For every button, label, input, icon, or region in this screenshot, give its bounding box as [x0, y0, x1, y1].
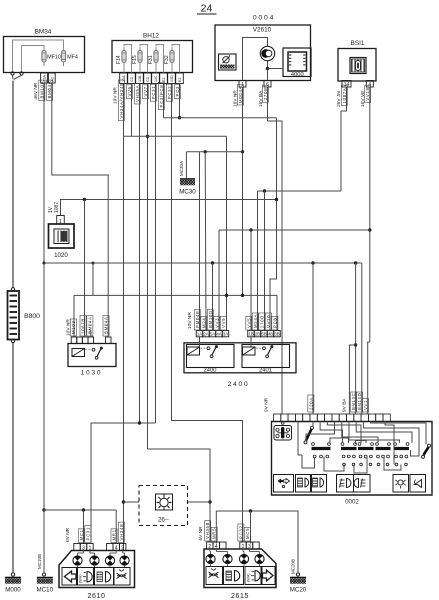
wire label VV9 — [220, 316, 226, 330]
wire label 1087B — [80, 316, 86, 336]
pin 2400 1A — [196, 331, 203, 337]
wire H230 — [219, 229, 370, 231]
wire BM10A column — [43, 83, 46, 510]
wire BH12 loop F14 — [124, 45, 132, 73]
bulb 2610 x77.5 — [73, 551, 84, 568]
fuse MF10 — [42, 47, 61, 67]
wire MR5 drop — [215, 511, 217, 544]
wire label M103 — [70, 319, 76, 336]
icon 2615 low beam — [245, 567, 261, 585]
pin 2400 2A — [203, 331, 210, 337]
svg-text:13C: 13C — [154, 75, 158, 82]
wire label VH35A — [134, 84, 140, 104]
wire 1B drop — [250, 230, 252, 331]
svg-text:B800: B800 — [24, 313, 40, 320]
unit BSI1 — [338, 40, 376, 81]
pin 0004 6 — [264, 81, 271, 88]
svg-text:MC1: MC1 — [79, 529, 84, 540]
svg-text:G3: G3 — [130, 77, 134, 82]
svg-text:V2610: V2610 — [253, 27, 272, 34]
wire BM10D drop — [361, 263, 363, 414]
headlamp 2610 — [59, 551, 135, 600]
pin BH12 13A — [120, 73, 128, 84]
junction 1B — [249, 228, 252, 231]
svg-text:(WA): (WA) — [247, 573, 251, 582]
pin BM34 out MF10 — [41, 73, 48, 83]
svg-text:PC8: PC8 — [272, 318, 277, 328]
svg-text:BM10D: BM10D — [357, 393, 362, 410]
wire label PC32 2615 — [238, 524, 244, 541]
wire VH34B to pin2 — [123, 503, 125, 544]
bulb 2615 x210.5 — [206, 549, 215, 567]
label 26V JN — [336, 91, 342, 107]
wire BM34 internal feed to MF4 — [13, 40, 64, 73]
svg-text:VV1: VV1 — [363, 400, 368, 410]
label 6V NR 2610 — [65, 527, 71, 542]
label MC10B — [37, 554, 42, 569]
wire label PC31 2610 — [85, 525, 91, 542]
junction M004A branch — [241, 150, 244, 153]
wire label M24 — [201, 316, 207, 330]
unit 0004 V2610 — [215, 15, 311, 81]
wire label VV5 — [246, 316, 252, 330]
pin BSI1 14 — [342, 81, 351, 88]
icon 0002 panel light — [393, 475, 409, 493]
ground MC30 — [179, 179, 196, 196]
svg-text:2: 2 — [121, 545, 124, 551]
wire label 270B — [262, 85, 268, 102]
wire label BM04A — [47, 80, 53, 100]
wire VH34B column c1 — [123, 84, 125, 550]
junction 2A — [204, 150, 207, 153]
wire label M004A — [237, 85, 243, 105]
svg-text:270D: 270D — [259, 315, 264, 328]
wire BM10C drop — [355, 263, 357, 414]
svg-text:10V NR: 10V NR — [187, 312, 193, 329]
relay 1030 — [68, 344, 116, 377]
wire M004A column — [242, 87, 244, 296]
svg-text:MC10: MC10 — [37, 587, 54, 594]
terminal BM34 left — [11, 72, 14, 75]
svg-text:2: 2 — [208, 544, 211, 550]
junction 0004 — [266, 67, 283, 70]
pin 2400 4B — [267, 331, 274, 337]
svg-text:4000: 4000 — [291, 72, 304, 78]
pin 2610 blank2 — [107, 544, 113, 551]
svg-text:2A: 2A — [203, 332, 208, 337]
pin 2615 1 — [240, 542, 246, 550]
wire label BM10A — [39, 80, 45, 100]
junction VH35B node — [208, 500, 211, 503]
junction MC5 — [249, 509, 252, 512]
svg-text:1087B: 1087B — [81, 318, 86, 334]
icon 0002 front fog — [337, 475, 354, 493]
svg-text:M24A: M24A — [253, 314, 258, 328]
svg-text:5B: 5B — [261, 332, 266, 337]
junction VV6 end — [138, 421, 141, 424]
label 19V NR — [113, 87, 119, 104]
svg-text:2615: 2615 — [231, 593, 249, 600]
label 16V BA — [258, 90, 264, 107]
svg-text:VV9: VV9 — [221, 318, 226, 328]
wire label VV10 — [265, 313, 271, 330]
junction c4 on H136 — [146, 135, 149, 138]
bulb 2615 x244 — [239, 549, 248, 567]
wire 1087A hook — [341, 87, 347, 191]
wire label VV6 — [126, 85, 132, 99]
icon 0002 rear fog — [354, 475, 371, 493]
junction 26 left — [122, 500, 125, 503]
pin 2610 3 — [80, 544, 86, 552]
svg-text:46V NR: 46V NR — [33, 82, 39, 99]
svg-text:MR5: MR5 — [212, 528, 217, 539]
pin 1030 x108.2 — [105, 337, 111, 344]
junction BM10C — [354, 261, 357, 264]
svg-text:BM10D: BM10D — [208, 310, 213, 328]
pin 2615 4 — [213, 542, 219, 550]
icon 0002 turn signals — [274, 475, 294, 493]
wire label PM04E — [194, 310, 200, 330]
wire BH12 loop F32 — [172, 45, 180, 73]
wire 26 left lead — [124, 501, 140, 503]
svg-text:M24: M24 — [201, 318, 206, 328]
svg-text:3B: 3B — [274, 332, 279, 337]
wire MC10 stem — [42, 510, 45, 576]
wire label VV1 — [363, 399, 369, 412]
relay 2401 right box — [242, 337, 290, 368]
svg-text:PC32: PC32 — [238, 525, 243, 539]
wire 2A drop — [204, 152, 207, 331]
svg-text:F14: F14 — [116, 55, 122, 64]
pin 2400 5A — [209, 331, 216, 337]
icon 2615 position — [206, 567, 223, 585]
pin 1030 x74 — [71, 337, 77, 344]
unit 0002 column switch — [272, 422, 433, 506]
svg-text:F32: F32 — [164, 55, 170, 64]
svg-text:2B: 2B — [255, 332, 260, 337]
wire 5B drop — [264, 191, 266, 331]
svg-text:2400: 2400 — [228, 381, 250, 388]
svg-text:1030: 1030 — [81, 370, 102, 377]
ground MC20 — [290, 578, 307, 594]
svg-text:2401: 2401 — [259, 367, 272, 373]
pin 2615 3 — [246, 542, 252, 550]
svg-text:BSI1: BSI1 — [351, 40, 365, 47]
label 16V NR — [233, 90, 239, 107]
relay 2400 left box — [187, 337, 235, 368]
lever 0002 left — [304, 426, 314, 444]
svg-text:0004: 0004 — [253, 15, 275, 22]
svg-text:19V NR: 19V NR — [113, 87, 119, 104]
wire label BM10D 0002 — [357, 392, 363, 412]
svg-text:F31: F31 — [148, 55, 154, 64]
icon 2615 turn — [262, 567, 275, 585]
fuse F15 — [132, 47, 142, 67]
icon 2610 low beam — [78, 568, 94, 586]
icon 2610 position — [114, 568, 131, 586]
wire H449 — [148, 449, 211, 543]
wire H152 to MC30 — [186, 151, 242, 153]
wire MC5 drop — [250, 511, 252, 544]
pin BH12 E3 — [176, 73, 184, 84]
page title 24 — [197, 3, 217, 15]
svg-text:MC5: MC5 — [245, 528, 250, 539]
relay block 2400 — [184, 343, 296, 388]
svg-text:M103: M103 — [71, 320, 76, 334]
pin 2400 2B — [254, 331, 261, 337]
svg-text:VV5: VV5 — [246, 318, 251, 328]
svg-text:BM04A: BM04A — [104, 316, 109, 334]
svg-text:MF4: MF4 — [67, 55, 78, 61]
wire 3B drop — [276, 295, 278, 330]
fuse F32 — [164, 47, 174, 67]
wire column c2 — [131, 84, 133, 136]
fusebox BM34 — [4, 29, 85, 73]
svg-text:1B: 1B — [248, 332, 253, 337]
wire 1087B column — [84, 200, 86, 337]
contacts 0002 — [312, 443, 410, 466]
pin BH12 G3 — [128, 73, 136, 84]
wire label VH34A/VH34B — [118, 80, 124, 120]
bulb 2610 x110 — [105, 551, 116, 568]
wire 5A drop — [212, 263, 214, 331]
wire 46V NR rail — [12, 81, 14, 574]
svg-text:VH34B: VH34B — [119, 523, 124, 540]
pins 0002 row — [274, 414, 391, 422]
wire H263 BM10 rail — [44, 262, 362, 264]
icon 2615 high beam — [224, 567, 244, 585]
fuse F31 — [148, 47, 158, 67]
svg-text:4B: 4B — [268, 332, 273, 337]
svg-text:E3: E3 — [162, 78, 166, 82]
svg-text:F15: F15 — [132, 55, 138, 64]
svg-text:1087: 1087 — [54, 202, 60, 213]
junction 220A — [311, 261, 314, 264]
wire label BM10D — [207, 310, 213, 330]
svg-text:6V NR: 6V NR — [65, 527, 71, 542]
pin 2400 3A — [222, 331, 229, 337]
pin BH12 13B — [136, 73, 144, 84]
icon 0002 connector — [274, 422, 292, 440]
junction c8 on H120 — [178, 116, 181, 119]
pin BSI1 4 — [366, 81, 373, 88]
svg-text:MC10B: MC10B — [37, 554, 42, 569]
fuse MF4 — [61, 47, 77, 67]
svg-text:3: 3 — [248, 544, 251, 550]
wire MC1 drop — [83, 510, 85, 544]
splice B800 — [8, 288, 41, 343]
pin 1030 x85.2 — [82, 337, 88, 344]
pin 2400 3B — [274, 331, 281, 337]
wire PC31 column c5 — [155, 84, 157, 423]
svg-text:VH35B: VH35B — [205, 522, 210, 539]
lamp symbol in 0004 — [260, 46, 274, 60]
bulb 2610 x94.5 — [90, 551, 99, 568]
fuse F14 — [116, 47, 126, 67]
wire VV6 column c3 — [139, 84, 141, 423]
unit 1020 — [49, 216, 75, 260]
pin 1030 x79.5 — [77, 337, 83, 344]
pin 2610 1 — [87, 544, 93, 552]
icon 0004 leveling motor — [219, 54, 237, 70]
svg-text:9V BA: 9V BA — [342, 398, 348, 412]
terminal BM34 right — [20, 72, 23, 75]
svg-text:9V NR: 9V NR — [264, 397, 270, 412]
icon 2610 turn — [62, 568, 77, 586]
wire label VV3 — [214, 316, 220, 330]
pin 2615 blank2 — [253, 542, 259, 549]
pin 2400 1B — [248, 331, 255, 337]
wire label BM04A 1030b — [103, 316, 109, 336]
label 10V NR 2400 — [187, 312, 193, 329]
pin 2615 2 — [207, 542, 213, 550]
wire label MC5 — [244, 527, 250, 541]
svg-text:1020: 1020 — [54, 252, 68, 259]
junction VV18 — [368, 228, 371, 231]
headlamp 2615 — [204, 549, 276, 600]
svg-text:BH12: BH12 — [143, 33, 159, 40]
junction 9VBA — [354, 343, 357, 346]
junction 5A — [211, 261, 214, 264]
wire BM04A column — [52, 83, 108, 337]
wire 9V BA drop — [349, 345, 355, 414]
wire label 270D — [259, 313, 265, 330]
svg-text:BM04A: BM04A — [87, 316, 92, 334]
wire label M24A — [252, 313, 258, 330]
svg-text:MC20B: MC20B — [291, 559, 296, 574]
junction 1087B — [83, 198, 86, 201]
bulb 2615 x227.5 — [216, 549, 232, 567]
wire VV18 column — [369, 87, 371, 342]
wire label MR5 — [211, 527, 217, 541]
svg-text:1: 1 — [242, 544, 245, 550]
icon 0002 low beam — [311, 475, 327, 493]
svg-text:2610: 2610 — [88, 593, 106, 600]
svg-text:MC20: MC20 — [290, 587, 307, 594]
pin 2610 blank1 — [74, 544, 80, 551]
wire 270B branch — [268, 121, 283, 414]
wire H118 PC3 link — [164, 117, 277, 119]
svg-text:13A: 13A — [122, 75, 126, 82]
pin 2400 5B — [261, 331, 268, 337]
wire label PC3 — [174, 85, 180, 99]
wire label MR1 — [111, 529, 117, 543]
label MC20B — [291, 559, 296, 574]
pin 2610 4 — [113, 544, 119, 552]
pin BH12 G3 — [144, 73, 152, 84]
ground MC10 — [37, 578, 54, 594]
svg-text:4: 4 — [115, 545, 118, 551]
pin 2400 4A — [216, 331, 223, 337]
svg-text:BM34: BM34 — [35, 29, 52, 36]
svg-text:4A: 4A — [216, 332, 221, 337]
wire label PC3/PC8 — [158, 82, 164, 109]
wire H136 link — [124, 135, 227, 137]
svg-text:E3: E3 — [178, 78, 182, 82]
pin BM34 out MF4 — [48, 73, 55, 83]
pin BH12 13C — [152, 73, 160, 84]
wire PC3 column c8 — [179, 84, 181, 118]
svg-text:26--: 26-- — [158, 517, 169, 524]
wire merge to 46V NR — [13, 75, 22, 79]
icon 0002 position lamps — [296, 475, 312, 493]
wire M103 riser — [92, 262, 95, 296]
label 6V NR 2615 — [198, 526, 204, 541]
wire 1V 1087 — [61, 200, 277, 216]
junction 5B — [263, 189, 266, 192]
svg-text:24: 24 — [201, 3, 213, 15]
svg-text:MR1: MR1 — [112, 529, 117, 540]
wire M103 drop — [73, 295, 75, 336]
label 10V NR 1030 — [66, 319, 72, 336]
bulb 2615 x259.5 — [250, 549, 265, 567]
wire label PC32 — [166, 84, 172, 101]
wire label VH34B 2610 — [118, 522, 124, 542]
wire VH35B column c4 — [147, 84, 149, 449]
icon 4000 module — [283, 48, 311, 78]
svg-text:G3: G3 — [146, 77, 150, 82]
svg-text:PC31: PC31 — [85, 527, 90, 541]
bulb 2610 x124.5 — [120, 551, 129, 568]
svg-text:0002: 0002 — [345, 499, 359, 506]
svg-text:2400: 2400 — [204, 367, 217, 373]
svg-text:MC30A: MC30A — [179, 161, 184, 176]
svg-text:VV10: VV10 — [266, 315, 271, 328]
wire BH12 loop F15 — [140, 45, 148, 73]
wire label PC31 — [150, 84, 156, 101]
wire 2B drop — [257, 191, 259, 331]
wire PC3/PC8 column c6 — [163, 84, 165, 118]
pin BH12 E3 — [160, 73, 168, 84]
wire 270B column — [267, 87, 269, 121]
wire 0004 pin1 to lamp — [243, 38, 268, 81]
wire H511 MC20 — [216, 511, 299, 576]
svg-text:(WA): (WA) — [79, 574, 83, 583]
wire 26 right lead — [188, 501, 211, 503]
svg-text:1: 1 — [89, 545, 92, 551]
svg-text:5A: 5A — [210, 332, 215, 337]
svg-text:MF10: MF10 — [47, 55, 61, 61]
optional unit 26-- — [139, 486, 188, 526]
svg-text:4: 4 — [215, 544, 218, 550]
wire relay drop 3A — [226, 136, 228, 330]
pin 2615 blank1 — [220, 542, 226, 549]
svg-text:M000: M000 — [5, 587, 21, 594]
wire label VH35B — [205, 521, 211, 541]
svg-text:3: 3 — [82, 545, 85, 551]
svg-text:13B: 13B — [138, 75, 142, 82]
wire 1030 pin stub — [90, 330, 92, 337]
wire label MC1 — [78, 529, 84, 543]
wire label BM10C — [351, 392, 357, 412]
wire BM34 internal feed to MF10 — [22, 46, 45, 73]
icon 2610 high beam — [95, 568, 115, 586]
wire H423 — [91, 423, 156, 543]
wire VV1 jog — [368, 342, 370, 414]
svg-text:3A: 3A — [223, 332, 228, 337]
svg-text:VV3: VV3 — [214, 318, 219, 328]
junction 3A branch — [225, 294, 228, 297]
wires 0002 interior — [283, 422, 426, 474]
wire MC10B node — [42, 508, 116, 511]
wire label VV18 — [365, 86, 371, 103]
svg-text:PM04E: PM04E — [195, 310, 200, 328]
svg-text:13D: 13D — [170, 75, 174, 82]
pin 1030 x90.8 — [88, 337, 94, 344]
wire label 220A — [308, 395, 314, 412]
pin 0004 1 — [239, 81, 246, 88]
wire label 1087A — [341, 85, 347, 105]
